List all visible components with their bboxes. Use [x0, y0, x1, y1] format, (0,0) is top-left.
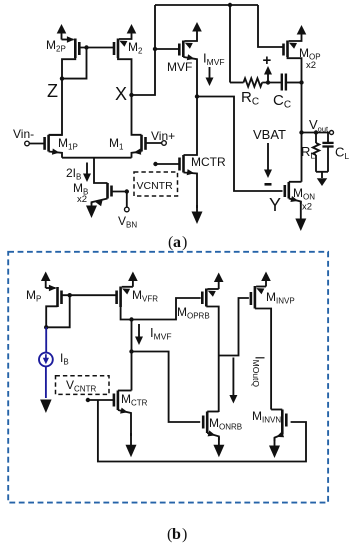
- wire Z vertical: [49, 79, 62, 135]
- wire MP drain to IB: [45, 327, 47, 352]
- label MP: [26, 288, 41, 304]
- svg-text:Z: Z: [47, 81, 58, 101]
- label MOP x2: [306, 60, 316, 71]
- power VDD arrow M2P: [57, 24, 67, 40]
- label MINVN: [252, 409, 281, 425]
- power VDD arrow MOPRB: [214, 273, 224, 290]
- wire diff pair tail: [62, 157, 132, 159]
- label MOP: [299, 46, 321, 62]
- svg-text:b: b: [172, 526, 181, 543]
- wire MVF node down: [131, 320, 133, 391]
- svg-text:VCNTR: VCNTR: [137, 180, 174, 192]
- terminal VBN: [125, 207, 130, 212]
- transistor MONRB: [203, 412, 219, 441]
- transistor M2P: [62, 36, 80, 78]
- transistor MINVP: [251, 286, 271, 410]
- svg-text:): ): [182, 526, 187, 543]
- resistor RL: [313, 133, 319, 172]
- label IMOutQ: [251, 356, 268, 387]
- transistor MCTR b: [88, 391, 132, 437]
- label IB: [60, 351, 69, 367]
- wire M2P gate to M2 gate: [79, 47, 115, 49]
- label MON x2: [302, 202, 312, 213]
- wire MP gate-drain feedback: [46, 295, 69, 327]
- transistor MOPRB: [202, 289, 218, 413]
- transistor M1: [132, 95, 162, 158]
- label M2: [128, 40, 143, 56]
- svg-text:+: +: [263, 52, 272, 69]
- transistor MOP: [284, 37, 302, 83]
- transistor MCTR: [180, 97, 198, 209]
- node top rail junction: [228, 3, 232, 7]
- node MP drain junction: [44, 325, 48, 329]
- ground MCTR: [192, 205, 203, 224]
- caption (b): [167, 526, 187, 543]
- label Y: [269, 195, 281, 215]
- node RL top: [314, 130, 318, 134]
- wire RC branch from rail: [229, 5, 231, 83]
- label Vin-: [13, 127, 34, 141]
- svg-text:Vin+: Vin+: [151, 129, 175, 143]
- power VDD arrow MP: [41, 272, 51, 289]
- transistor M2: [114, 36, 132, 95]
- node MP gate junction: [68, 293, 72, 297]
- label VBAT: [253, 127, 286, 142]
- wire gate bottom rail: [98, 400, 306, 462]
- label VBAT plus: [263, 52, 272, 69]
- node MVF b junction: [129, 317, 133, 321]
- box VCNTR: [134, 172, 178, 196]
- svg-text:): ): [182, 234, 187, 251]
- capacitor CC: [282, 74, 286, 91]
- label 2IB current: [66, 166, 81, 182]
- svg-text:X: X: [115, 84, 127, 104]
- svg-text:a: a: [173, 234, 181, 251]
- svg-text:x2: x2: [306, 60, 316, 71]
- power VDD arrow MVF: [192, 22, 202, 32]
- wire MVF gate: [155, 48, 180, 50]
- transistor M1P: [29, 135, 62, 158]
- ground MON: [295, 201, 306, 231]
- transistor MINVN: [271, 410, 286, 442]
- transistor MP: [46, 285, 62, 328]
- svg-text:MVF: MVF: [167, 60, 192, 74]
- wire top rail: [155, 4, 258, 6]
- arrow IMOutQ: [229, 358, 237, 404]
- ground MCTR b: [126, 433, 137, 457]
- transistor MVF: [179, 31, 197, 97]
- node X: [129, 93, 133, 97]
- terminal Vin-: [25, 141, 30, 146]
- label MVF: [167, 60, 192, 74]
- wire M2P gate-drain feedback: [62, 48, 87, 79]
- label MINVP: [266, 290, 295, 306]
- ground IB: [40, 400, 52, 414]
- label M2P: [46, 38, 66, 54]
- label MONRB: [209, 416, 242, 432]
- node MCTR gate terminal: [153, 162, 157, 166]
- svg-text:Y: Y: [269, 195, 281, 215]
- ground MB: [86, 203, 97, 218]
- label CC: [273, 92, 291, 111]
- label Z: [47, 81, 58, 101]
- caption (a): [168, 234, 187, 251]
- node Vout: [299, 130, 303, 134]
- wire MOPRB drain to MINVP gate: [219, 298, 249, 356]
- wire CC to Vout line: [286, 82, 302, 84]
- label MB x2: [77, 194, 87, 205]
- current source IB: [39, 353, 53, 367]
- label M1: [109, 136, 124, 152]
- arrow IMVF b: [135, 324, 143, 345]
- label IMVF current: [203, 51, 225, 68]
- svg-text:MCTR: MCTR: [191, 155, 226, 169]
- label IMVF b: [150, 325, 172, 342]
- wire RC to CC: [262, 82, 281, 84]
- arrow IMVF: [206, 67, 214, 86]
- wire MP gate to MVFR gate: [61, 294, 117, 296]
- wire RL CL bottom: [316, 172, 328, 178]
- wire Vout line: [301, 83, 303, 182]
- label Vin+: [151, 129, 175, 143]
- svg-text:VBAT: VBAT: [253, 127, 286, 142]
- wire MCTR gate: [156, 163, 181, 165]
- node VBAT plus junction: [266, 80, 270, 84]
- node M2P gate junction: [84, 45, 88, 49]
- wire X to top rail: [132, 5, 156, 95]
- node Z: [60, 76, 64, 80]
- wire RC left: [230, 82, 244, 84]
- arrow VBAT plus: [264, 66, 272, 83]
- label Vout: [309, 117, 329, 134]
- transistor MB: [92, 158, 127, 207]
- wire IB to ground: [45, 366, 47, 398]
- power VDD arrow MOP: [297, 25, 307, 37]
- label MVFR: [132, 288, 158, 304]
- terminal Vin+: [162, 141, 167, 146]
- svg-text:x2: x2: [302, 202, 312, 213]
- label RL: [301, 144, 315, 161]
- transistor MVFR: [117, 287, 133, 320]
- border figure b box: [8, 252, 328, 503]
- label MOPRB: [177, 305, 210, 321]
- svg-text:x2: x2: [77, 194, 87, 205]
- label CL: [335, 145, 349, 162]
- transistor MON: [285, 182, 302, 204]
- wire MVF drain to Y branch: [197, 97, 283, 192]
- capacitor CL: [322, 133, 333, 172]
- label MB: [73, 181, 88, 197]
- wire Vout right: [302, 132, 331, 134]
- ground MINVN: [269, 438, 280, 458]
- label MON: [293, 186, 315, 202]
- power VDD arrow M2: [127, 24, 137, 36]
- ground load: [317, 178, 327, 186]
- box VCNTR b: [56, 376, 110, 395]
- node MVF drain junction: [195, 94, 199, 98]
- label M1P: [58, 136, 78, 152]
- node MVF branch junction: [129, 349, 133, 353]
- arrow 2IB: [83, 163, 91, 183]
- resistor RC: [244, 78, 263, 86]
- arrow VBAT minus: [264, 143, 272, 178]
- power VDD arrow MINVP: [261, 272, 271, 287]
- wire MB gate to VBN: [126, 192, 128, 208]
- label RC: [241, 89, 259, 108]
- label MCTR: [191, 155, 226, 169]
- wire MVF node to MOPRB gate: [132, 298, 201, 320]
- svg-text:Vin-: Vin-: [13, 127, 34, 141]
- node MB gate corner: [125, 189, 129, 193]
- label X: [115, 84, 127, 104]
- power VDD arrow MVFR: [128, 272, 138, 287]
- wire top rail to MOP gate: [258, 5, 283, 47]
- node MCTR b gate terminal: [86, 398, 90, 402]
- terminal Vout right: [330, 131, 334, 135]
- label VBAT minus: [265, 183, 272, 186]
- label MCTR b: [121, 392, 148, 408]
- node MOP drain junction: [299, 80, 303, 84]
- wire MVF branch to MONRB gate: [132, 352, 201, 423]
- node MVF gate junction: [153, 47, 157, 51]
- label VBN: [118, 214, 137, 230]
- ground MONRB: [213, 437, 224, 457]
